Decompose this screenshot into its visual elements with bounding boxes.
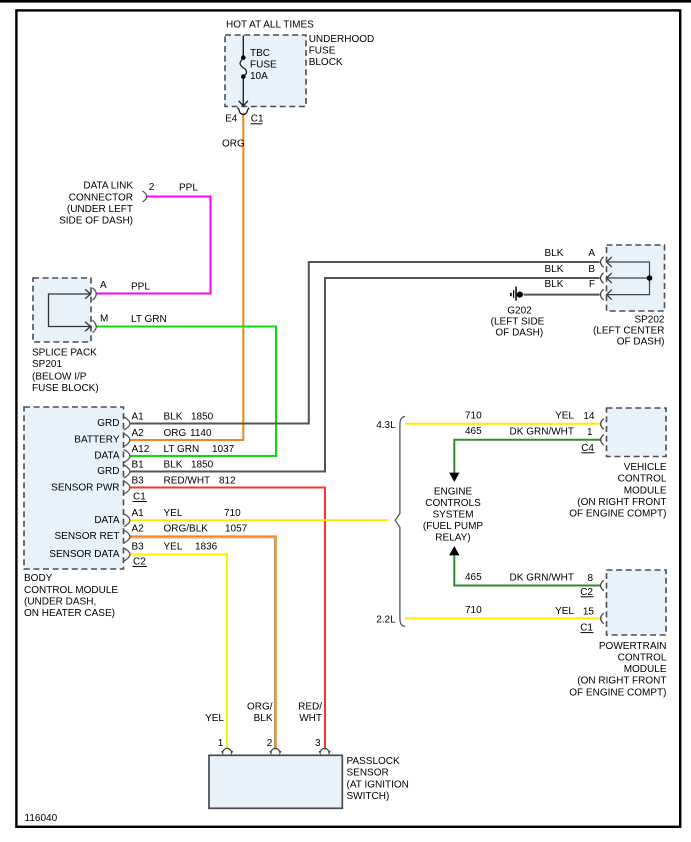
- svg-text:A: A: [100, 280, 107, 291]
- svg-text:SPLICE PACK: SPLICE PACK: [32, 348, 97, 359]
- svg-text:DK GRN/WHT: DK GRN/WHT: [510, 573, 574, 584]
- svg-text:CONNECTOR: CONNECTOR: [69, 192, 133, 203]
- svg-text:1140: 1140: [190, 428, 212, 439]
- svg-text:FUSE BLOCK): FUSE BLOCK): [32, 383, 99, 394]
- svg-text:BODY: BODY: [24, 573, 53, 584]
- svg-text:BLK: BLK: [164, 459, 183, 470]
- svg-text:OF DASH): OF DASH): [495, 327, 543, 338]
- svg-text:BLK: BLK: [545, 279, 564, 290]
- svg-text:HOT AT ALL TIMES: HOT AT ALL TIMES: [226, 19, 314, 30]
- svg-text:C4: C4: [581, 443, 594, 454]
- svg-text:YEL: YEL: [164, 508, 183, 519]
- svg-text:GRD: GRD: [97, 466, 119, 477]
- svg-text:C2: C2: [580, 587, 593, 598]
- svg-text:VEHICLE: VEHICLE: [624, 462, 667, 473]
- svg-text:710: 710: [465, 410, 482, 421]
- svg-text:(ON RIGHT FRONT: (ON RIGHT FRONT: [577, 676, 666, 687]
- svg-text:C1: C1: [133, 492, 146, 503]
- svg-text:SENSOR PWR: SENSOR PWR: [51, 483, 119, 494]
- svg-text:F: F: [589, 279, 595, 290]
- svg-text:ORG/BLK: ORG/BLK: [164, 524, 209, 535]
- svg-text:DATA: DATA: [94, 451, 120, 462]
- svg-text:BLOCK: BLOCK: [309, 57, 343, 68]
- svg-text:465: 465: [465, 426, 482, 437]
- svg-text:TBC: TBC: [250, 48, 270, 59]
- svg-text:1: 1: [587, 427, 593, 438]
- svg-text:3: 3: [315, 738, 321, 749]
- svg-text:ENGINE: ENGINE: [434, 487, 473, 498]
- svg-text:PASSLOCK: PASSLOCK: [347, 756, 400, 767]
- svg-text:C1: C1: [251, 114, 264, 125]
- svg-text:A1: A1: [132, 411, 145, 422]
- svg-text:ORG: ORG: [222, 139, 245, 150]
- svg-text:B: B: [588, 264, 595, 275]
- svg-text:C2: C2: [133, 557, 146, 568]
- svg-text:A1: A1: [132, 508, 145, 519]
- svg-text:OF ENGINE COMPT): OF ENGINE COMPT): [569, 687, 666, 698]
- svg-text:PPL: PPL: [131, 282, 150, 293]
- svg-text:OF DASH): OF DASH): [617, 337, 665, 348]
- svg-text:ORG/: ORG/: [247, 701, 273, 712]
- svg-text:1057: 1057: [225, 524, 248, 535]
- svg-text:ON HEATER CASE): ON HEATER CASE): [24, 608, 115, 619]
- svg-text:SP202: SP202: [634, 314, 664, 325]
- svg-text:BLK: BLK: [254, 713, 273, 724]
- svg-text:FUSE: FUSE: [250, 60, 277, 71]
- svg-text:RELAY): RELAY): [435, 532, 470, 543]
- svg-text:C1: C1: [580, 623, 593, 634]
- svg-text:(AT IGNITION: (AT IGNITION: [347, 779, 409, 790]
- svg-text:E4: E4: [225, 114, 238, 125]
- svg-text:A2: A2: [132, 524, 145, 535]
- svg-text:SP201: SP201: [32, 359, 62, 370]
- svg-text:WHT: WHT: [299, 713, 322, 724]
- svg-text:8: 8: [587, 573, 593, 584]
- svg-text:14: 14: [583, 411, 595, 422]
- svg-text:(FUEL PUMP: (FUEL PUMP: [423, 521, 484, 532]
- svg-text:2: 2: [267, 738, 273, 749]
- svg-text:1: 1: [218, 738, 224, 749]
- svg-text:CONTROL MODULE: CONTROL MODULE: [24, 585, 118, 596]
- svg-text:1850: 1850: [191, 459, 214, 470]
- svg-text:SIDE OF DASH): SIDE OF DASH): [59, 215, 133, 226]
- svg-text:DK GRN/WHT: DK GRN/WHT: [510, 427, 574, 438]
- svg-text:(ON RIGHT FRONT: (ON RIGHT FRONT: [577, 497, 666, 508]
- svg-text:2: 2: [149, 182, 155, 193]
- svg-text:CONTROL: CONTROL: [618, 653, 667, 664]
- svg-text:B3: B3: [132, 475, 145, 486]
- svg-text:(UNDER DASH,: (UNDER DASH,: [24, 596, 96, 607]
- svg-text:YEL: YEL: [555, 411, 574, 422]
- svg-text:PPL: PPL: [179, 183, 198, 194]
- svg-text:YEL: YEL: [205, 713, 224, 724]
- svg-text:M: M: [100, 313, 108, 324]
- svg-text:BLK: BLK: [545, 264, 564, 275]
- svg-text:2.2L: 2.2L: [376, 614, 396, 625]
- svg-text:(LEFT CENTER: (LEFT CENTER: [593, 326, 665, 337]
- svg-text:A: A: [588, 248, 595, 259]
- svg-text:OF ENGINE COMPT): OF ENGINE COMPT): [569, 509, 666, 520]
- svg-text:(BELOW I/P: (BELOW I/P: [32, 372, 87, 383]
- svg-text:465: 465: [465, 572, 482, 583]
- svg-text:RED/: RED/: [298, 701, 322, 712]
- svg-text:B3: B3: [132, 541, 145, 552]
- svg-text:MODULE: MODULE: [624, 664, 667, 675]
- svg-text:GRD: GRD: [97, 418, 119, 429]
- svg-text:ORG: ORG: [164, 428, 187, 439]
- svg-text:MODULE: MODULE: [624, 485, 667, 496]
- svg-text:(UNDER LEFT: (UNDER LEFT: [67, 204, 133, 215]
- svg-text:CONTROL: CONTROL: [618, 474, 667, 485]
- svg-text:812: 812: [219, 475, 236, 486]
- svg-text:710: 710: [224, 508, 241, 519]
- svg-text:YEL: YEL: [555, 606, 574, 617]
- svg-text:POWERTRAIN: POWERTRAIN: [599, 641, 667, 652]
- svg-text:SYSTEM: SYSTEM: [432, 509, 473, 520]
- svg-text:1836: 1836: [195, 541, 218, 552]
- svg-text:710: 710: [465, 605, 482, 616]
- svg-text:BATTERY: BATTERY: [74, 435, 120, 446]
- svg-text:SENSOR: SENSOR: [347, 768, 389, 779]
- svg-text:1037: 1037: [212, 444, 235, 455]
- svg-text:10A: 10A: [250, 71, 268, 82]
- svg-text:A12: A12: [132, 444, 150, 455]
- svg-text:RED/WHT: RED/WHT: [164, 475, 211, 486]
- svg-text:YEL: YEL: [164, 541, 183, 552]
- svg-text:SENSOR RET: SENSOR RET: [54, 531, 119, 542]
- svg-text:UNDERHOOD: UNDERHOOD: [309, 34, 375, 45]
- svg-text:15: 15: [583, 607, 595, 618]
- svg-text:B1: B1: [132, 459, 145, 470]
- svg-text:CONTROLS: CONTROLS: [425, 498, 481, 509]
- svg-text:4.3L: 4.3L: [376, 420, 396, 431]
- svg-text:SENSOR DATA: SENSOR DATA: [49, 549, 120, 560]
- svg-text:LT GRN: LT GRN: [131, 314, 167, 325]
- svg-text:DATA LINK: DATA LINK: [83, 181, 133, 192]
- svg-text:FUSE: FUSE: [309, 46, 336, 57]
- svg-text:BLK: BLK: [545, 248, 564, 259]
- svg-text:LT GRN: LT GRN: [164, 444, 200, 455]
- svg-text:DATA: DATA: [94, 515, 120, 526]
- svg-text:BLK: BLK: [164, 411, 183, 422]
- svg-text:SWITCH): SWITCH): [347, 791, 390, 802]
- svg-text:A2: A2: [132, 428, 145, 439]
- svg-text:116040: 116040: [25, 813, 58, 824]
- svg-text:(LEFT SIDE: (LEFT SIDE: [491, 316, 545, 327]
- svg-text:G202: G202: [507, 305, 532, 316]
- svg-text:1850: 1850: [191, 411, 214, 422]
